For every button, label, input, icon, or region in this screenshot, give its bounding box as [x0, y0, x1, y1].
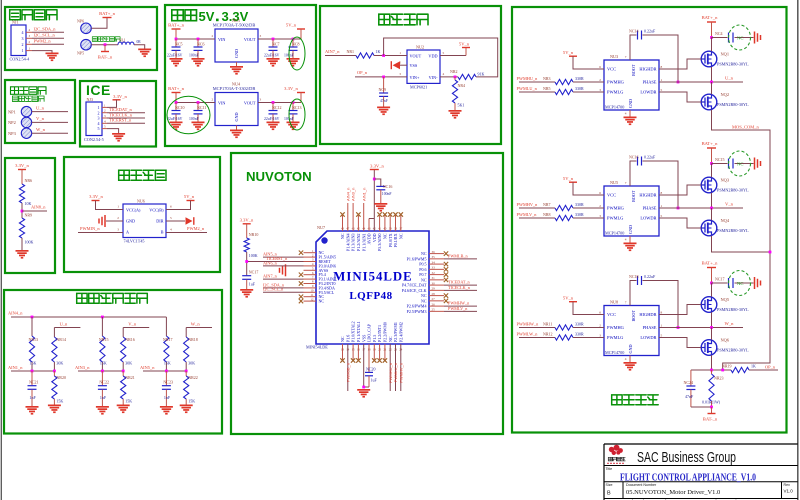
- svg-text:5V_n: 5V_n: [563, 50, 574, 55]
- svg-text:15K: 15K: [100, 361, 107, 366]
- svg-text:6: 6: [599, 191, 601, 195]
- svg-text:AIN7_n: AIN7_n: [263, 274, 278, 279]
- svg-text:29: 29: [432, 287, 436, 291]
- svg-text:28: 28: [432, 292, 436, 296]
- svg-text:15K: 15K: [164, 361, 171, 366]
- svg-text:P2.4/PWM2: P2.4/PWM2: [398, 322, 403, 342]
- svg-text:NQ5: NQ5: [721, 297, 730, 302]
- svg-text:4: 4: [443, 72, 445, 76]
- svg-text:BAT+_n: BAT+_n: [168, 23, 185, 28]
- svg-text:NC5: NC5: [175, 41, 183, 46]
- svg-text:1nF: 1nF: [100, 395, 107, 400]
- svg-text:NC: NC: [737, 281, 743, 286]
- svg-text:NC22: NC22: [99, 380, 109, 385]
- svg-text:NR17: NR17: [163, 337, 173, 342]
- svg-text:W_n: W_n: [36, 127, 46, 132]
- svg-text:P0.1/RX: P0.1/RX: [393, 233, 398, 247]
- svg-text:3.3V_n: 3.3V_n: [15, 163, 29, 168]
- svg-text:FLIGHT CONTROL APPLIANCE_V1.0: FLIGHT CONTROL APPLIANCE_V1.0: [620, 471, 756, 483]
- svg-text:NR22: NR22: [188, 375, 198, 380]
- svg-text:1: 1: [98, 105, 100, 110]
- svg-text:100K: 100K: [249, 253, 258, 258]
- svg-text:100nF: 100nF: [189, 53, 199, 57]
- svg-text:NR11: NR11: [543, 321, 552, 326]
- svg-text:PSMN2R80-30YL: PSMN2R80-30YL: [717, 228, 749, 233]
- svg-text:U_n: U_n: [725, 76, 734, 81]
- svg-text:AIN7_n: AIN7_n: [325, 49, 340, 54]
- svg-text:PWMHV_n: PWMHV_n: [398, 363, 403, 383]
- svg-text:NC23: NC23: [163, 380, 173, 385]
- svg-text:2: 2: [599, 78, 601, 82]
- svg-text:31: 31: [432, 276, 436, 280]
- svg-text:B: B: [161, 230, 164, 235]
- svg-text:PHASE: PHASE: [643, 206, 657, 211]
- svg-text:NC: NC: [421, 251, 427, 256]
- svg-text:27: 27: [432, 297, 436, 301]
- svg-text:100nF: 100nF: [382, 192, 392, 196]
- svg-text:11: 11: [310, 293, 313, 297]
- svg-text:5: 5: [661, 214, 663, 218]
- svg-text:AIN4_n: AIN4_n: [345, 188, 350, 201]
- svg-text:SAC Business Group: SAC Business Group: [637, 450, 736, 466]
- svg-text:PWMHG: PWMHG: [607, 80, 625, 85]
- svg-text:NC: NC: [737, 35, 743, 40]
- svg-text:330R: 330R: [575, 202, 584, 207]
- svg-text:VIN+: VIN+: [410, 75, 420, 80]
- svg-text:NR10: NR10: [249, 232, 259, 237]
- svg-text:HIGHDR: HIGHDR: [639, 193, 656, 198]
- svg-text:BAT+_n: BAT+_n: [99, 11, 116, 16]
- svg-text:GND: GND: [234, 112, 239, 121]
- svg-text:NC4: NC4: [715, 31, 723, 36]
- svg-text:P5.3/AIN0: P5.3/AIN0: [377, 234, 382, 251]
- svg-text:NU3: NU3: [610, 54, 618, 59]
- svg-text:NC8: NC8: [292, 41, 300, 46]
- svg-text:NC: NC: [340, 233, 345, 239]
- svg-text:330R: 330R: [575, 331, 584, 336]
- svg-text:PSMN2R80-30YL: PSMN2R80-30YL: [717, 62, 749, 67]
- svg-text:VIN: VIN: [218, 37, 225, 42]
- svg-text:30K: 30K: [125, 361, 132, 366]
- svg-text:4: 4: [98, 121, 100, 126]
- svg-text:MINI54LDE: MINI54LDE: [306, 345, 328, 350]
- svg-text:5V_n: 5V_n: [563, 296, 574, 301]
- svg-text:P2.6/PWM4: P2.6/PWM4: [407, 304, 427, 309]
- svg-text:22uF/16V: 22uF/16V: [167, 53, 183, 57]
- svg-text:V_n: V_n: [36, 116, 45, 121]
- svg-text:PWMHU_n: PWMHU_n: [388, 363, 393, 383]
- svg-text:VSS: VSS: [361, 335, 366, 342]
- svg-text:NR19: NR19: [722, 364, 732, 369]
- svg-text:7: 7: [625, 301, 627, 305]
- svg-text:NC15: NC15: [715, 157, 725, 162]
- svg-text:NC17: NC17: [715, 277, 725, 282]
- svg-text:05.NUVOTON_Motor Driver_V1.0: 05.NUVOTON_Motor Driver_V1.0: [626, 489, 720, 496]
- svg-text:NC: NC: [383, 233, 388, 239]
- svg-text:NR15: NR15: [99, 337, 109, 342]
- svg-text:NC: NC: [421, 293, 427, 298]
- svg-text:47nF: 47nF: [380, 99, 388, 103]
- svg-text:P1.0/XTAL2: P1.0/XTAL2: [351, 321, 356, 342]
- svg-text:P0.5: P0.5: [419, 262, 426, 267]
- svg-text:W_n: W_n: [191, 322, 201, 327]
- svg-text:PSMN2R80-30YL: PSMN2R80-30YL: [717, 102, 749, 107]
- svg-text:NC: NC: [398, 233, 403, 239]
- svg-text:NU8: NU8: [610, 299, 618, 304]
- svg-text:MCP14700: MCP14700: [605, 230, 624, 235]
- svg-text:P0.0/TX: P0.0/TX: [388, 233, 393, 247]
- svg-text:P1.2/AIN2: P1.2/AIN2: [356, 234, 361, 251]
- svg-text:VSS: VSS: [410, 63, 418, 68]
- svg-text:3.3V_n: 3.3V_n: [89, 194, 103, 199]
- svg-text:22uF/16V: 22uF/16V: [264, 53, 280, 57]
- svg-text:TICERST_n: TICERST_n: [266, 256, 288, 261]
- svg-text:15K: 15K: [125, 399, 132, 404]
- svg-text:2: 2: [212, 34, 214, 38]
- svg-text:NC24: NC24: [684, 380, 694, 385]
- svg-text:3: 3: [117, 228, 119, 232]
- svg-text:4: 4: [625, 238, 627, 242]
- svg-text:NC11: NC11: [197, 105, 206, 110]
- svg-text:MCP14700: MCP14700: [605, 104, 624, 109]
- svg-text:PWM2_n: PWM2_n: [187, 226, 205, 231]
- svg-text:33: 33: [432, 266, 436, 270]
- svg-text:NR5: NR5: [543, 86, 551, 91]
- svg-text:Document Number: Document Number: [626, 483, 657, 487]
- svg-text:VCC: VCC: [607, 312, 616, 317]
- svg-text:V_n: V_n: [725, 202, 734, 207]
- svg-text:BAT+_n: BAT+_n: [702, 261, 719, 266]
- svg-text:NP5: NP5: [77, 51, 84, 56]
- svg-text:5: 5: [661, 88, 663, 92]
- svg-text:5V_n: 5V_n: [459, 42, 470, 47]
- svg-text:5: 5: [170, 216, 172, 220]
- svg-text:34: 34: [432, 260, 436, 264]
- svg-text:NQ4: NQ4: [721, 218, 730, 223]
- svg-text:AVDD: AVDD: [367, 233, 372, 244]
- svg-text:NC6: NC6: [197, 41, 205, 46]
- svg-text:NUVOTON: NUVOTON: [246, 169, 312, 184]
- svg-text:BAT+_n: BAT+_n: [702, 141, 719, 146]
- svg-text:1: 1: [661, 78, 663, 82]
- svg-text:NC20: NC20: [366, 367, 376, 372]
- svg-text:74LVC1T45: 74LVC1T45: [124, 239, 145, 244]
- svg-text:PHASE: PHASE: [643, 325, 657, 330]
- svg-text:MOS_COM_n: MOS_COM_n: [732, 125, 760, 130]
- svg-text:NQ1: NQ1: [721, 52, 730, 57]
- svg-text:P1.6: P1.6: [345, 335, 350, 342]
- svg-text:NC: NC: [340, 336, 345, 342]
- svg-text:NR21: NR21: [125, 375, 135, 380]
- svg-text:NC16: NC16: [629, 155, 639, 160]
- svg-text:BOOT: BOOT: [631, 190, 636, 202]
- svg-text:4: 4: [625, 112, 627, 116]
- svg-text:0.22uF: 0.22uF: [644, 274, 656, 279]
- svg-text:0R: 0R: [137, 40, 142, 44]
- svg-text:2: 2: [599, 204, 601, 208]
- svg-text:2: 2: [117, 216, 119, 220]
- svg-text:PWMLG: PWMLG: [607, 216, 624, 221]
- svg-text:NC16: NC16: [383, 184, 393, 189]
- svg-text:BAT-_n: BAT-_n: [98, 55, 113, 60]
- svg-text:HIGHDR: HIGHDR: [639, 67, 656, 72]
- svg-text:2: 2: [98, 110, 100, 115]
- svg-text:NJ1: NJ1: [12, 19, 18, 24]
- svg-text:NC9: NC9: [379, 87, 387, 92]
- svg-text:3: 3: [260, 98, 262, 102]
- svg-text:NC: NC: [388, 336, 393, 342]
- svg-text:5V_n: 5V_n: [563, 176, 574, 181]
- svg-text:AIN1_n: AIN1_n: [361, 188, 366, 201]
- svg-text:NR4: NR4: [458, 83, 466, 88]
- svg-text:2: 2: [22, 42, 24, 47]
- svg-text:3: 3: [260, 34, 262, 38]
- svg-text:NC: NC: [737, 161, 743, 166]
- svg-text:MCP14700: MCP14700: [605, 350, 624, 355]
- svg-text:NC14: NC14: [629, 29, 639, 34]
- svg-text:VCC: VCC: [607, 67, 616, 72]
- svg-text:3.3V_n: 3.3V_n: [284, 86, 298, 91]
- svg-text:3: 3: [599, 88, 601, 92]
- svg-text:P1.2/INT1: P1.2/INT1: [377, 325, 382, 342]
- svg-text:I2C_SCL_n: I2C_SCL_n: [263, 287, 284, 292]
- svg-text:AIN5_n: AIN5_n: [140, 365, 155, 370]
- svg-text:NU5: NU5: [610, 180, 618, 185]
- svg-text:3.3V_n: 3.3V_n: [370, 163, 384, 168]
- svg-text:NU2: NU2: [416, 45, 424, 50]
- svg-text:1uF: 1uF: [371, 378, 378, 383]
- svg-text:PWMLW_n: PWMLW_n: [517, 331, 539, 336]
- svg-text:15K: 15K: [188, 399, 195, 404]
- svg-text:AIN3_n: AIN3_n: [75, 365, 90, 370]
- svg-text:5V_n: 5V_n: [184, 194, 195, 199]
- svg-text:W_n: W_n: [725, 321, 735, 326]
- svg-text:3: 3: [399, 72, 401, 76]
- svg-text:VCC(B): VCC(B): [149, 208, 164, 213]
- svg-text:NC17: NC17: [249, 270, 259, 275]
- svg-text:PWMHW_n: PWMHW_n: [517, 321, 540, 326]
- svg-text:NP3: NP3: [8, 131, 17, 136]
- svg-text:P1.1/AIN1: P1.1/AIN1: [361, 234, 366, 251]
- svg-text:PWMLV_n: PWMLV_n: [448, 306, 468, 311]
- svg-text:PWMLU_n: PWMLU_n: [393, 363, 398, 382]
- svg-text:A: A: [126, 230, 129, 235]
- svg-text:PWMLB_n: PWMLB_n: [448, 253, 468, 258]
- svg-text:NC7: NC7: [272, 41, 280, 46]
- svg-text:1: 1: [661, 324, 663, 328]
- svg-text:Rev: Rev: [784, 483, 791, 487]
- svg-text:U_n: U_n: [36, 105, 45, 110]
- svg-text:P2.2/PWM0: P2.2/PWM0: [383, 322, 388, 342]
- svg-text:LQFP48: LQFP48: [349, 290, 392, 302]
- svg-text:NQ2: NQ2: [721, 92, 730, 97]
- svg-text:NR9: NR9: [25, 213, 33, 218]
- svg-text:22uF/16V: 22uF/16V: [264, 117, 280, 121]
- svg-text:PWMLU_n: PWMLU_n: [517, 86, 538, 91]
- svg-text:8: 8: [661, 65, 663, 69]
- svg-text:30K: 30K: [188, 361, 195, 366]
- svg-text:5: 5: [443, 51, 445, 55]
- svg-text:6: 6: [599, 65, 601, 69]
- svg-text:VCC(A): VCC(A): [126, 208, 141, 213]
- svg-text:PHASE: PHASE: [643, 80, 657, 85]
- svg-text:NQ6: NQ6: [721, 338, 730, 343]
- svg-text:NR13: NR13: [29, 337, 39, 342]
- svg-text:TICECLK_n: TICECLK_n: [109, 112, 133, 117]
- svg-text:NC: NC: [319, 299, 325, 304]
- svg-text:OP_n: OP_n: [765, 364, 776, 369]
- svg-text:P4.6/ICE_CLK: P4.6/ICE_CLK: [402, 288, 427, 293]
- svg-text:PWMHG: PWMHG: [607, 325, 625, 330]
- svg-text:V1.0: V1.0: [784, 489, 794, 494]
- svg-text:12: 12: [310, 297, 314, 301]
- svg-text:2: 2: [599, 324, 601, 328]
- svg-text:NR18: NR18: [188, 337, 198, 342]
- svg-text:1uF: 1uF: [249, 282, 256, 287]
- svg-text:NJ3: NJ3: [87, 97, 93, 102]
- svg-text:PWM0B_n: PWM0B_n: [345, 363, 350, 382]
- svg-text:NR8: NR8: [543, 212, 551, 217]
- svg-text:NR6: NR6: [25, 178, 33, 183]
- svg-text:NR23: NR23: [714, 376, 724, 381]
- svg-text:NC10: NC10: [175, 105, 185, 110]
- svg-text:P2.3/PWM1: P2.3/PWM1: [393, 322, 398, 342]
- svg-text:4: 4: [22, 30, 24, 35]
- svg-text:NC12: NC12: [272, 105, 282, 110]
- svg-text:8: 8: [661, 191, 663, 195]
- svg-text:GND: GND: [628, 225, 633, 234]
- svg-text:PSMN2R80-30YL: PSMN2R80-30YL: [717, 348, 749, 353]
- svg-text:5K1: 5K1: [458, 103, 465, 108]
- svg-text:26: 26: [432, 302, 436, 306]
- svg-text:NR7: NR7: [543, 202, 551, 207]
- svg-text:HIGHDR: HIGHDR: [639, 312, 656, 317]
- svg-text:PWMIN_n: PWMIN_n: [80, 226, 100, 231]
- svg-text:VOUT: VOUT: [244, 37, 256, 42]
- svg-text:6: 6: [170, 205, 172, 209]
- svg-text:P0.7: P0.7: [419, 272, 426, 277]
- svg-text:VOUT: VOUT: [410, 54, 422, 59]
- svg-text:TICECLK_n: TICECLK_n: [448, 285, 471, 290]
- svg-text:8: 8: [661, 311, 663, 315]
- svg-text:P1.1/XTAL1: P1.1/XTAL1: [356, 321, 361, 342]
- svg-text:0.22uF: 0.22uF: [644, 29, 656, 34]
- svg-text:LOWDR: LOWDR: [640, 90, 656, 95]
- svg-text:NP2: NP2: [8, 120, 16, 125]
- svg-text:4: 4: [625, 357, 627, 361]
- svg-text:MINI54LDE: MINI54LDE: [333, 270, 412, 284]
- svg-text:1nF: 1nF: [30, 395, 37, 400]
- svg-text:15K: 15K: [56, 399, 63, 404]
- svg-text:MCP6021: MCP6021: [410, 85, 427, 90]
- svg-text:1nF: 1nF: [164, 395, 171, 400]
- svg-text:4: 4: [170, 228, 172, 232]
- svg-text:Size: Size: [606, 483, 613, 487]
- svg-text:I2C_SCL_n: I2C_SCL_n: [34, 33, 56, 38]
- svg-text:OP_n: OP_n: [357, 70, 368, 75]
- svg-text:P1.3/AIN3: P1.3/AIN3: [351, 234, 356, 251]
- svg-text:NR16: NR16: [125, 337, 135, 342]
- svg-text:1: 1: [399, 51, 401, 55]
- svg-text:AIN1_n: AIN1_n: [8, 365, 23, 370]
- svg-text:BOOT: BOOT: [631, 64, 636, 76]
- svg-text:3: 3: [22, 36, 24, 41]
- svg-text:NP6: NP6: [77, 19, 84, 24]
- svg-text:AIN4_n: AIN4_n: [8, 311, 23, 316]
- svg-text:P2.5/PWM3: P2.5/PWM3: [407, 309, 427, 314]
- svg-text:GND: GND: [628, 99, 633, 108]
- svg-text:PWMLG: PWMLG: [607, 90, 624, 95]
- svg-text:VDD: VDD: [372, 233, 377, 242]
- svg-text:25: 25: [432, 308, 436, 312]
- svg-text:1: 1: [117, 205, 119, 209]
- svg-text:P4.7/ICE_DAT: P4.7/ICE_DAT: [402, 283, 427, 288]
- svg-text:VDD: VDD: [428, 54, 437, 59]
- svg-text:DIR: DIR: [156, 219, 163, 224]
- svg-text:VIN-: VIN-: [429, 75, 438, 80]
- svg-text:NR12: NR12: [543, 331, 553, 336]
- svg-text:NQ3: NQ3: [721, 178, 730, 183]
- svg-text:330R: 330R: [575, 212, 584, 217]
- svg-text:PWM2_n: PWM2_n: [34, 39, 52, 44]
- svg-text:47nF: 47nF: [685, 394, 694, 399]
- svg-text:NR14: NR14: [56, 337, 66, 342]
- svg-text:CON2.54-5: CON2.54-5: [84, 137, 104, 142]
- svg-text:LOWDR: LOWDR: [640, 335, 656, 340]
- svg-text:LOWDR: LOWDR: [640, 216, 656, 221]
- svg-text:BOOT: BOOT: [631, 310, 636, 322]
- svg-text:VCC: VCC: [607, 193, 616, 198]
- svg-text:330R: 330R: [575, 86, 584, 91]
- svg-text:3: 3: [98, 116, 100, 121]
- svg-text:1K: 1K: [751, 364, 756, 369]
- svg-text:TICEDAT_n: TICEDAT_n: [448, 280, 471, 285]
- svg-text:PWMHW_n: PWMHW_n: [448, 301, 470, 306]
- svg-text:35: 35: [432, 255, 436, 259]
- svg-text:6: 6: [599, 311, 601, 315]
- svg-text:30: 30: [432, 281, 436, 285]
- svg-text:7: 7: [625, 55, 627, 59]
- svg-text:5: 5: [661, 334, 663, 338]
- svg-text:GND: GND: [628, 344, 633, 353]
- svg-text:PSMN2R80-30YL: PSMN2R80-30YL: [717, 307, 749, 312]
- svg-text:U_n: U_n: [59, 322, 68, 327]
- svg-text:Title: Title: [606, 467, 613, 471]
- svg-text:7: 7: [625, 181, 627, 185]
- svg-text:NC: NC: [421, 277, 427, 282]
- svg-text:P1.6/PWM5: P1.6/PWM5: [407, 256, 427, 261]
- svg-text:V_n: V_n: [128, 322, 137, 327]
- svg-text:NC13: NC13: [292, 105, 302, 110]
- svg-text:100nF: 100nF: [189, 117, 199, 121]
- svg-text:NR1: NR1: [347, 49, 355, 54]
- svg-text:NU7: NU7: [317, 225, 325, 230]
- svg-text:0.22uF: 0.22uF: [644, 155, 656, 160]
- svg-text:2: 2: [212, 98, 214, 102]
- svg-text:NP1: NP1: [8, 109, 16, 114]
- svg-text:VOUT: VOUT: [244, 101, 256, 106]
- svg-text:1: 1: [22, 48, 24, 53]
- svg-text:BAT+_n: BAT+_n: [702, 15, 719, 20]
- svg-text:3: 3: [599, 214, 601, 218]
- svg-text:B: B: [607, 491, 611, 497]
- svg-text:NU6: NU6: [137, 199, 145, 204]
- svg-text:MCP1703A-T-5002/DB: MCP1703A-T-5002/DB: [213, 22, 256, 27]
- svg-text:NR20: NR20: [56, 375, 66, 380]
- svg-text:NR2: NR2: [450, 69, 458, 74]
- svg-text:330R: 330R: [575, 321, 584, 326]
- svg-text:P1.4/AIN4: P1.4/AIN4: [345, 234, 350, 251]
